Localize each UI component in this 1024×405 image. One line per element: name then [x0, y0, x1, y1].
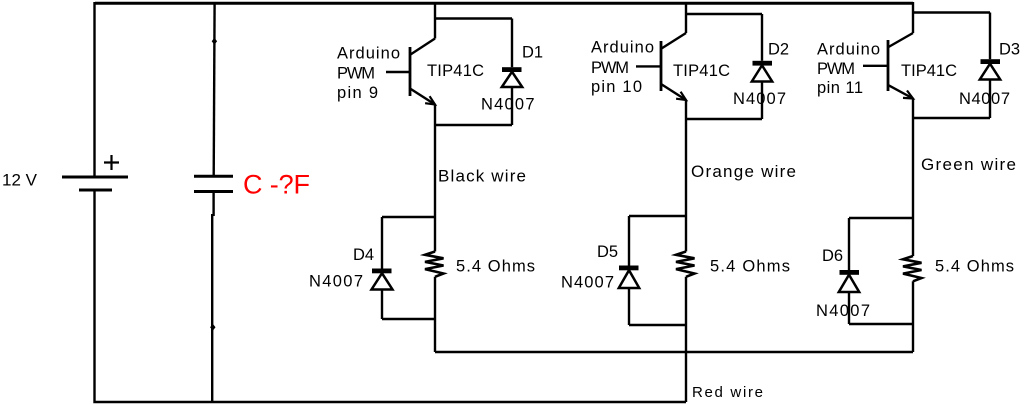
svg-text:TIP41C: TIP41C	[673, 62, 730, 80]
wire D4 lower lead	[381, 290, 383, 320]
svg-text:TIP41C: TIP41C	[427, 62, 484, 80]
transistor Q1 TIP41C	[386, 39, 435, 105]
wire D6 upper lead	[848, 218, 850, 270]
wire Q1 collector branch to D1	[435, 17, 512, 19]
svg-text:N4007: N4007	[561, 274, 614, 292]
wire R2 loop top	[629, 215, 686, 217]
diode D4 N4007	[372, 269, 393, 290]
wire D5 lower lead	[628, 288, 630, 325]
svg-text:pin 11: pin 11	[817, 79, 863, 97]
wire Q1 collector drop from top rail	[434, 3, 436, 39]
junction dot on capacitor bottom lead	[210, 324, 215, 331]
svg-text:D2: D2	[768, 41, 789, 59]
svg-text:5.4 Ohms: 5.4 Ohms	[456, 258, 535, 276]
svg-text:Orange wire: Orange wire	[691, 162, 796, 181]
junction dot on capacitor top lead	[212, 38, 217, 45]
wire R3 loop bottom	[849, 323, 913, 325]
wire Q2 collector branch to D2	[686, 13, 762, 15]
label Arduino PWM pin 10	[591, 39, 654, 97]
wire capacitor top lead	[212, 3, 215, 176]
wire Q1 emitter to D1 bottom	[435, 124, 512, 126]
svg-text:PWM: PWM	[817, 60, 855, 78]
wire D6 lower lead	[848, 292, 850, 324]
svg-text:Red wire: Red wire	[692, 384, 763, 401]
resistor R2 5.4 Ohms	[676, 252, 695, 277]
svg-text:12 V: 12 V	[2, 171, 38, 190]
svg-text:Arduino: Arduino	[591, 39, 654, 57]
svg-text:Arduino: Arduino	[337, 45, 400, 63]
svg-text:5.4 Ohms: 5.4 Ohms	[710, 258, 790, 276]
svg-text:D5: D5	[597, 243, 618, 261]
diode D2 N4007	[752, 14, 772, 119]
svg-text:TIP41C: TIP41C	[901, 62, 957, 80]
capacitor C1 plates	[194, 176, 233, 191]
wire capacitor bottom lead with jog	[212, 192, 213, 403]
label Arduino PWM pin 9	[337, 45, 400, 103]
wire R3 loop top	[849, 217, 913, 219]
svg-text:Black wire: Black wire	[438, 167, 526, 186]
svg-text:N4007: N4007	[959, 90, 1010, 108]
svg-text:5.4 Ohms: 5.4 Ohms	[935, 258, 1014, 276]
svg-text:PWM: PWM	[591, 59, 629, 77]
svg-text:D1: D1	[522, 44, 543, 62]
wire emitter common rail	[435, 351, 913, 353]
wire Q1 emitter vertical upper	[434, 105, 436, 252]
wire bottom ground rail	[95, 190, 687, 402]
wire Q3 emitter vertical upper	[912, 99, 914, 257]
svg-text:N4007: N4007	[481, 96, 535, 114]
resistor R1 5.4 Ohms	[425, 252, 444, 277]
transistor Q3 TIP41C	[863, 33, 913, 99]
battery B1 12V plates	[62, 177, 128, 190]
wire Q2 emitter to D2 bottom	[686, 118, 762, 120]
diode D3 N4007	[980, 13, 1000, 119]
svg-text:C -?F: C -?F	[243, 170, 310, 200]
svg-text:D3: D3	[999, 41, 1020, 59]
svg-text:N4007: N4007	[309, 273, 363, 291]
svg-text:N4007: N4007	[816, 302, 870, 320]
resistor R3 5.4 Ohms	[903, 256, 922, 281]
wire Q1 emitter vertical lower	[434, 277, 436, 352]
wire R2 loop bottom	[629, 324, 686, 326]
diode D5 N4007	[619, 266, 639, 289]
svg-text:Green wire: Green wire	[921, 155, 1016, 174]
label Arduino PWM pin 11	[817, 41, 880, 98]
svg-text:D4: D4	[353, 246, 374, 264]
wire R1 loop top	[382, 216, 435, 218]
svg-text:N4007: N4007	[733, 90, 786, 108]
wire D5 upper lead	[628, 216, 630, 266]
wire R1 loop bottom	[382, 318, 435, 320]
wire Q3 collector branch to D3	[913, 11, 990, 13]
svg-text:PWM: PWM	[337, 65, 375, 83]
diode D1 N4007	[502, 19, 522, 126]
svg-text:pin 9: pin 9	[337, 84, 378, 102]
wire Q3 emitter vertical lower	[912, 281, 914, 352]
wire Q2 collector drop from top rail	[685, 3, 687, 33]
svg-text:D6: D6	[822, 247, 843, 265]
svg-text:pin 10: pin 10	[591, 78, 642, 96]
diode D6 N4007	[839, 270, 859, 292]
svg-text:Arduino: Arduino	[817, 41, 880, 59]
wire Q2 emitter vertical lower to ground rail	[685, 277, 687, 402]
wire Q2 emitter vertical upper	[685, 100, 687, 252]
wire D4 upper lead	[381, 217, 383, 269]
battery plus sign	[104, 155, 119, 170]
wire Q3 emitter to D3 bottom	[913, 117, 990, 119]
wire top supply rail with left drop and right drop to Q3 collector	[95, 3, 914, 177]
transistor Q2 TIP41C	[636, 33, 686, 100]
